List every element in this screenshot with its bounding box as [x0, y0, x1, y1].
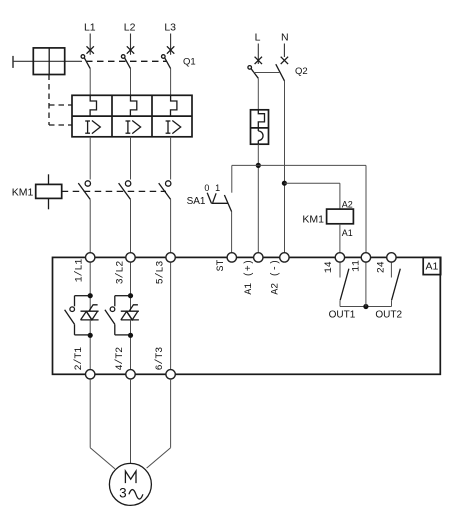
svg-text:2/T1: 2/T1 — [73, 347, 84, 371]
svg-text:3: 3 — [119, 486, 127, 501]
svg-text:A1 (+): A1 (+) — [243, 259, 254, 294]
svg-text:KM1: KM1 — [12, 186, 34, 198]
svg-text:N: N — [281, 31, 289, 43]
svg-text:24: 24 — [375, 261, 386, 273]
svg-text:SA1: SA1 — [187, 196, 206, 207]
svg-text:A1: A1 — [425, 260, 438, 272]
svg-text:OUT1: OUT1 — [329, 310, 356, 321]
svg-text:ST: ST — [215, 260, 226, 272]
svg-text:0: 0 — [204, 183, 209, 193]
svg-text:A2 (-): A2 (-) — [269, 259, 280, 294]
svg-text:A2: A2 — [342, 200, 353, 210]
svg-text:KM1: KM1 — [302, 213, 324, 225]
svg-text:14: 14 — [323, 261, 334, 273]
svg-text:L1: L1 — [84, 21, 96, 33]
svg-text:11: 11 — [351, 260, 362, 272]
svg-text:L: L — [255, 31, 261, 43]
svg-text:A1: A1 — [342, 228, 353, 238]
svg-text:L3: L3 — [164, 21, 176, 33]
svg-text:6/T3: 6/T3 — [154, 347, 165, 371]
svg-text:Q1: Q1 — [183, 56, 196, 67]
svg-text:OUT2: OUT2 — [375, 310, 402, 321]
svg-text:L2: L2 — [124, 21, 136, 33]
svg-text:4/T2: 4/T2 — [114, 347, 125, 371]
svg-text:1/L1: 1/L1 — [74, 259, 85, 283]
svg-text:3/L2: 3/L2 — [115, 261, 126, 285]
svg-text:5/L3: 5/L3 — [155, 261, 166, 285]
svg-text:1: 1 — [215, 183, 220, 193]
svg-text:Q2: Q2 — [295, 66, 308, 77]
